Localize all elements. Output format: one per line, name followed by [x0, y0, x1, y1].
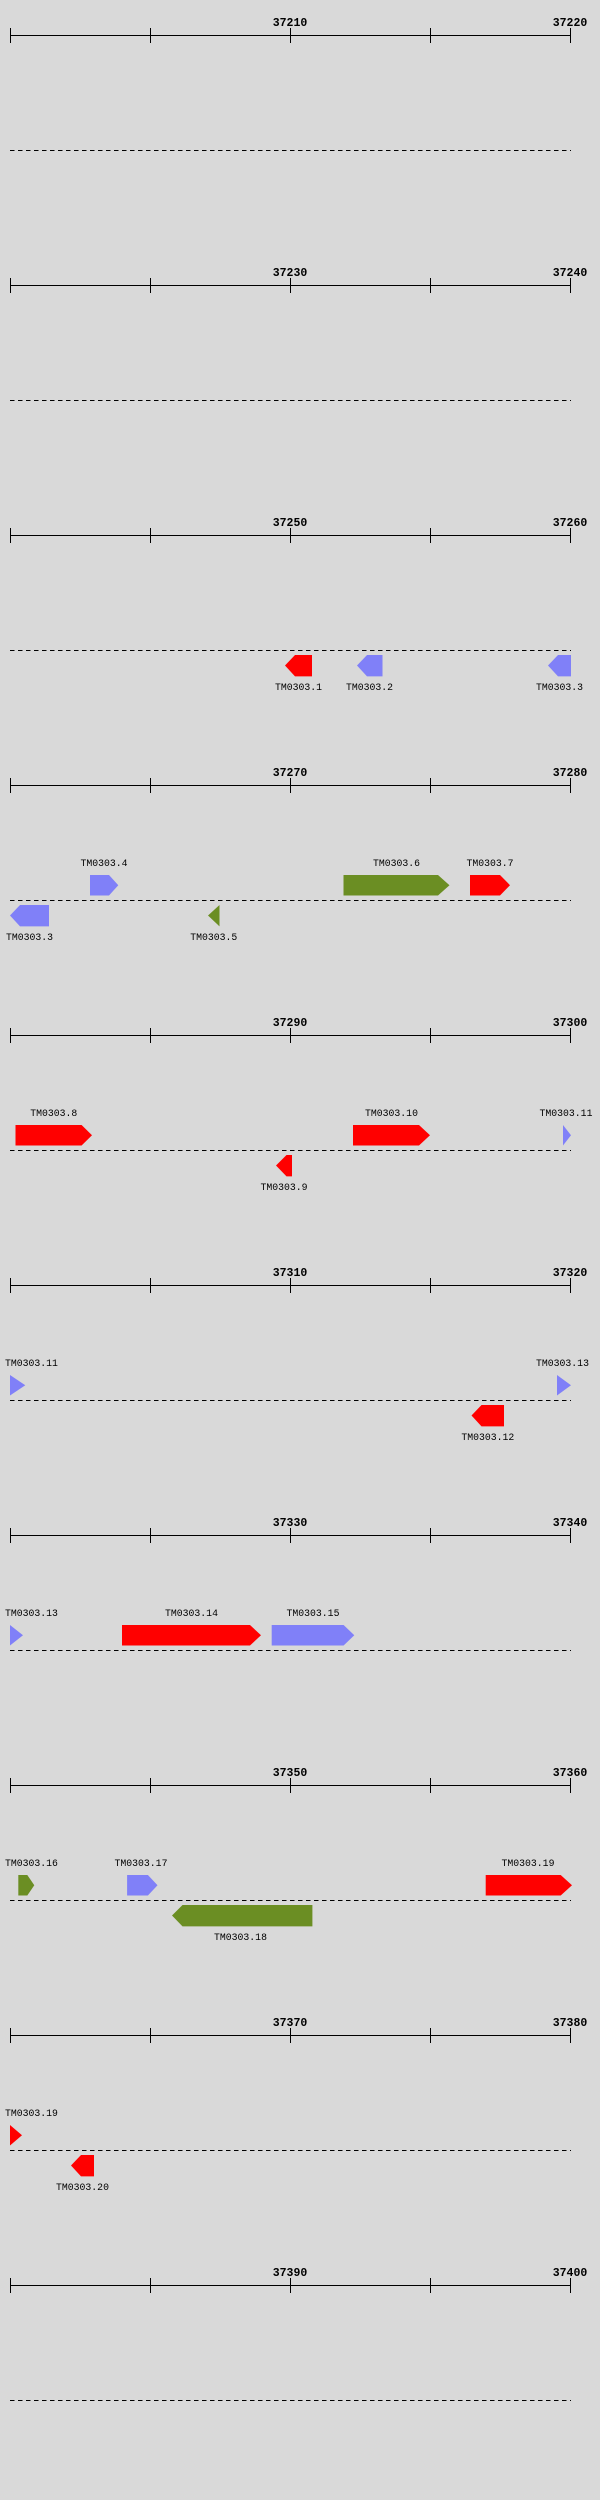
panel 6 ruler line (37310/37320): [10, 1285, 571, 1287]
gene arrow TM0303.4 (above): [90, 875, 118, 896]
gene arrow TM0303.19 (above): [486, 1875, 572, 1896]
svg-text:37310: 37310: [273, 1267, 308, 1280]
svg-text:37290: 37290: [273, 1017, 308, 1030]
panel 3 ruler line (37250/37260): [10, 535, 571, 537]
svg-text:37330: 37330: [273, 1517, 308, 1530]
gene arrow TM0303.6 (above): [344, 875, 450, 896]
svg-text:37210: 37210: [273, 17, 308, 30]
svg-text:37260: 37260: [553, 517, 588, 530]
panel 3 dashed baseline: [10, 650, 571, 652]
svg-text:37360: 37360: [553, 1767, 588, 1780]
svg-text:TM0303.4: TM0303.4: [80, 858, 127, 869]
svg-text:TM0303.1: TM0303.1: [275, 682, 322, 693]
svg-text:37250: 37250: [273, 517, 308, 530]
gene arrow TM0303.19 (above): [10, 2125, 22, 2146]
panel 5 dashed baseline: [10, 1150, 571, 1152]
panel 3 ruler ticks: [11, 528, 571, 543]
gene arrow TM0303.10 (above): [353, 1125, 430, 1146]
gene arrow TM0303.12 (below): [472, 1405, 505, 1426]
panel 2 dashed baseline: [10, 400, 571, 402]
svg-text:TM0303.11: TM0303.11: [540, 1108, 593, 1119]
svg-text:TM0303.14: TM0303.14: [165, 1608, 218, 1619]
gene arrow TM0303.13 (above): [10, 1625, 23, 1646]
gene arrow TM0303.7 (above): [470, 875, 510, 896]
gene arrow TM0303.9 (below): [276, 1155, 292, 1176]
panel 8 dashed baseline: [10, 1900, 571, 1902]
svg-text:TM0303.2: TM0303.2: [346, 682, 393, 693]
svg-text:TM0303.11: TM0303.11: [5, 1358, 58, 1369]
panel 5 ruler ticks: [11, 1028, 571, 1043]
svg-text:TM0303.13: TM0303.13: [536, 1358, 589, 1369]
svg-text:37230: 37230: [273, 267, 308, 280]
panel 7 dashed baseline: [10, 1650, 571, 1652]
gene arrow TM0303.11 (above): [563, 1125, 571, 1146]
svg-text:TM0303.5: TM0303.5: [190, 932, 237, 943]
panel 9 ruler ticks: [11, 2028, 571, 2043]
svg-text:37390: 37390: [273, 2267, 308, 2280]
gene arrow TM0303.3 (below): [10, 905, 49, 926]
svg-text:37240: 37240: [553, 267, 588, 280]
panel 10 ruler line (37390/37400): [10, 2285, 571, 2287]
panel 4 ruler ticks: [11, 778, 571, 793]
svg-text:37400: 37400: [553, 2267, 588, 2280]
panel 1 dashed baseline: [10, 150, 571, 152]
panel 8 ruler ticks: [11, 1778, 571, 1793]
svg-text:37280: 37280: [553, 767, 588, 780]
gene arrow TM0303.3 (below): [548, 655, 571, 676]
gene arrow TM0303.2 (below): [357, 655, 383, 676]
panel 1 ruler line (37210/37220): [10, 35, 571, 37]
panel 7 ruler ticks: [11, 1528, 571, 1543]
svg-text:37270: 37270: [273, 767, 308, 780]
panel 6 ruler ticks: [11, 1278, 571, 1293]
svg-text:TM0303.3: TM0303.3: [536, 682, 583, 693]
gene arrow TM0303.1 (below): [285, 655, 312, 676]
panel 7 ruler line (37330/37340): [10, 1535, 571, 1537]
svg-text:TM0303.20: TM0303.20: [56, 2182, 109, 2193]
svg-text:TM0303.3: TM0303.3: [6, 932, 53, 943]
gene arrow TM0303.14 (above): [122, 1625, 261, 1646]
svg-text:37320: 37320: [553, 1267, 588, 1280]
panel 6 dashed baseline: [10, 1400, 571, 1402]
svg-text:TM0303.16: TM0303.16: [5, 1858, 58, 1869]
gene arrow TM0303.18 (below): [172, 1905, 312, 1926]
panel 4 ruler line (37270/37280): [10, 785, 571, 787]
svg-text:TM0303.15: TM0303.15: [287, 1608, 340, 1619]
svg-text:TM0303.8: TM0303.8: [30, 1108, 77, 1119]
gene arrow TM0303.20 (below): [71, 2155, 94, 2176]
panel 9 ruler line (37370/37380): [10, 2035, 571, 2037]
panel 10 dashed baseline: [10, 2400, 571, 2402]
panel 8 ruler line (37350/37360): [10, 1785, 571, 1787]
gene arrow TM0303.11 (above): [10, 1375, 25, 1396]
svg-text:TM0303.10: TM0303.10: [365, 1108, 418, 1119]
gene arrow TM0303.17 (above): [127, 1875, 157, 1896]
svg-text:37350: 37350: [273, 1767, 308, 1780]
svg-text:TM0303.13: TM0303.13: [5, 1608, 58, 1619]
svg-text:37380: 37380: [553, 2017, 588, 2030]
svg-text:TM0303.7: TM0303.7: [466, 858, 513, 869]
panel 5 ruler line (37290/37300): [10, 1035, 571, 1037]
panel 10 ruler ticks: [11, 2278, 571, 2293]
svg-text:TM0303.18: TM0303.18: [214, 1932, 267, 1943]
svg-text:37300: 37300: [553, 1017, 588, 1030]
svg-text:TM0303.12: TM0303.12: [461, 1432, 514, 1443]
gene arrow TM0303.16 (above): [18, 1875, 34, 1896]
svg-text:37340: 37340: [553, 1517, 588, 1530]
gene arrow TM0303.13 (above): [557, 1375, 571, 1396]
gene arrow TM0303.5 (below): [208, 905, 220, 926]
svg-text:TM0303.19: TM0303.19: [502, 1858, 555, 1869]
svg-text:TM0303.17: TM0303.17: [115, 1858, 168, 1869]
panel 1 ruler ticks: [11, 28, 571, 43]
panel 2 ruler line (37230/37240): [10, 285, 571, 287]
svg-text:37220: 37220: [553, 17, 588, 30]
svg-text:TM0303.9: TM0303.9: [260, 1182, 307, 1193]
svg-text:37370: 37370: [273, 2017, 308, 2030]
panel 2 ruler ticks: [11, 278, 571, 293]
svg-text:TM0303.19: TM0303.19: [5, 2108, 58, 2119]
panel 4 dashed baseline: [10, 900, 571, 902]
svg-text:TM0303.6: TM0303.6: [373, 858, 420, 869]
gene arrow TM0303.15 (above): [272, 1625, 355, 1646]
panel 9 dashed baseline: [10, 2150, 571, 2152]
gene arrow TM0303.8 (above): [16, 1125, 93, 1146]
